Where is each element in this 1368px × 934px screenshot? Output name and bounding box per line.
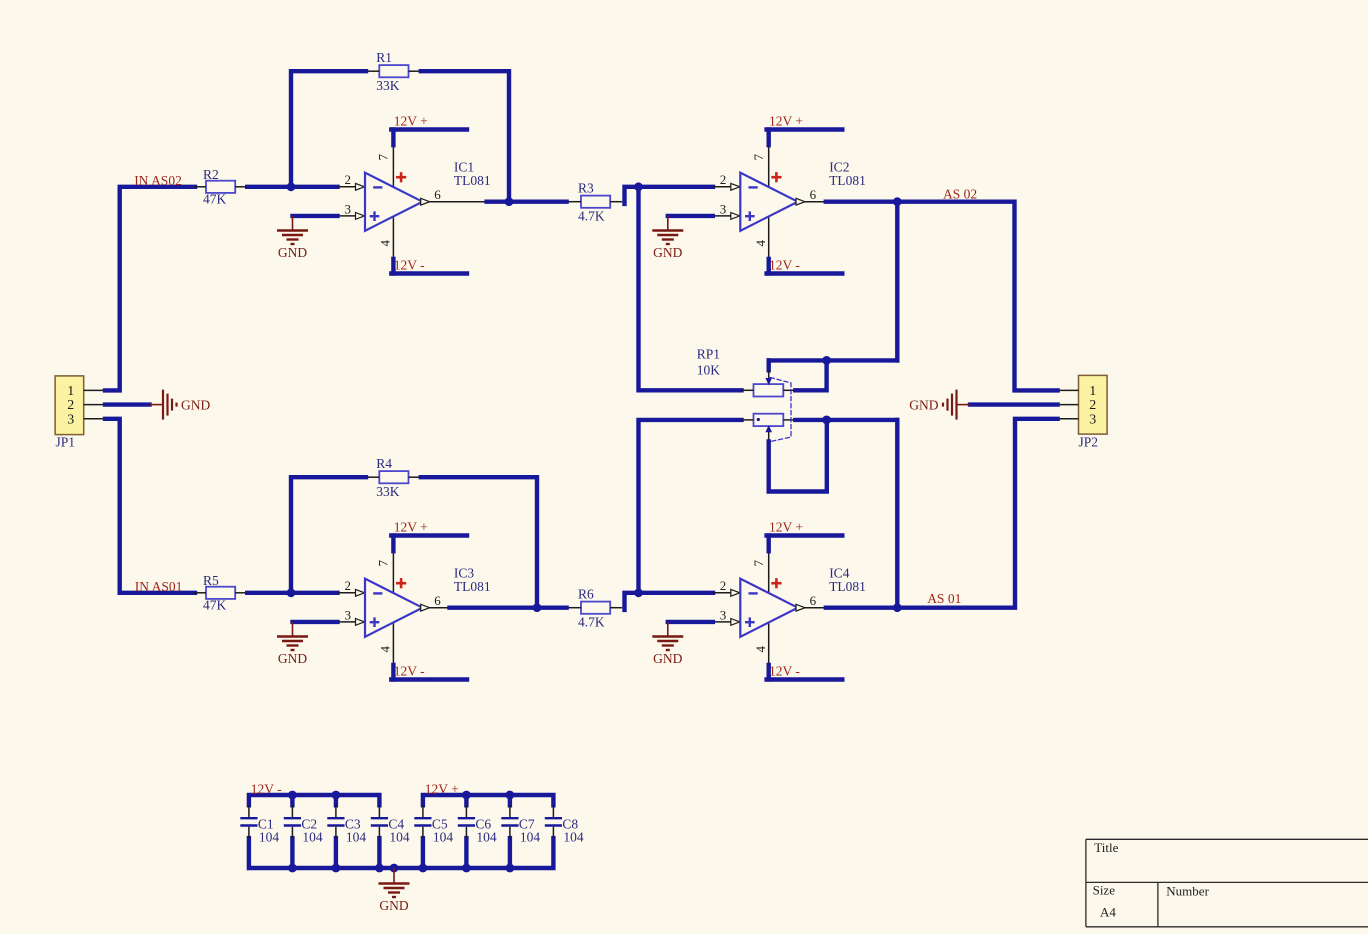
svg-text:3: 3 xyxy=(720,202,727,217)
svg-text:Size: Size xyxy=(1093,882,1116,897)
svg-text:104: 104 xyxy=(302,830,323,845)
svg-text:R4: R4 xyxy=(376,456,392,471)
svg-text:2: 2 xyxy=(67,398,74,413)
svg-text:3: 3 xyxy=(1089,412,1096,427)
svg-text:4: 4 xyxy=(378,646,393,653)
svg-text:7: 7 xyxy=(376,559,391,566)
svg-text:R2: R2 xyxy=(203,167,219,182)
svg-text:TL081: TL081 xyxy=(454,173,491,188)
svg-text:2: 2 xyxy=(1089,398,1096,413)
svg-text:4: 4 xyxy=(378,240,393,247)
svg-text:1: 1 xyxy=(1089,384,1096,399)
svg-text:104: 104 xyxy=(346,830,367,845)
svg-text:12V +: 12V + xyxy=(394,114,428,129)
svg-text:2: 2 xyxy=(345,172,352,187)
svg-text:2: 2 xyxy=(345,578,352,593)
svg-text:104: 104 xyxy=(389,830,410,845)
svg-text:R5: R5 xyxy=(203,573,219,588)
svg-text:12V -: 12V - xyxy=(251,782,282,797)
svg-text:3: 3 xyxy=(720,608,727,623)
svg-text:47K: 47K xyxy=(203,597,227,612)
svg-text:33K: 33K xyxy=(376,78,400,93)
svg-text:GND: GND xyxy=(379,898,408,913)
svg-text:6: 6 xyxy=(810,187,817,202)
svg-text:12V +: 12V + xyxy=(769,114,803,129)
svg-text:12V -: 12V - xyxy=(769,258,800,273)
svg-text:IN AS02: IN AS02 xyxy=(134,173,182,188)
svg-text:A4: A4 xyxy=(1100,904,1116,919)
svg-text:GND: GND xyxy=(181,397,210,412)
svg-text:12V -: 12V - xyxy=(394,664,425,679)
svg-text:JP2: JP2 xyxy=(1079,434,1099,449)
svg-text:12V -: 12V - xyxy=(394,258,425,273)
svg-text:10K: 10K xyxy=(697,363,721,378)
svg-text:GND: GND xyxy=(909,397,938,412)
svg-text:104: 104 xyxy=(259,830,280,845)
svg-text:Title: Title xyxy=(1094,840,1118,855)
svg-text:TL081: TL081 xyxy=(829,579,866,594)
svg-text:3: 3 xyxy=(67,412,74,427)
svg-text:3: 3 xyxy=(345,202,352,217)
svg-text:7: 7 xyxy=(751,559,766,566)
svg-text:33K: 33K xyxy=(376,484,400,499)
svg-text:6: 6 xyxy=(434,593,441,608)
svg-text:6: 6 xyxy=(810,593,817,608)
svg-text:RP1: RP1 xyxy=(697,347,720,362)
svg-text:GND: GND xyxy=(653,651,682,666)
svg-text:47K: 47K xyxy=(203,191,227,206)
svg-text:R3: R3 xyxy=(578,181,594,196)
svg-text:2: 2 xyxy=(720,578,727,593)
svg-text:AS 02: AS 02 xyxy=(943,186,977,201)
svg-text:7: 7 xyxy=(751,153,766,160)
svg-text:12V -: 12V - xyxy=(769,664,800,679)
svg-text:GND: GND xyxy=(278,245,307,260)
svg-text:4.7K: 4.7K xyxy=(578,209,605,224)
svg-text:12V +: 12V + xyxy=(425,782,459,797)
svg-text:TL081: TL081 xyxy=(829,173,866,188)
svg-text:7: 7 xyxy=(376,153,391,160)
svg-text:104: 104 xyxy=(520,830,541,845)
svg-text:R1: R1 xyxy=(376,50,392,65)
svg-text:4.7K: 4.7K xyxy=(578,615,605,630)
svg-text:12V +: 12V + xyxy=(394,520,428,535)
svg-text:104: 104 xyxy=(563,830,584,845)
svg-text:6: 6 xyxy=(434,187,441,202)
svg-text:TL081: TL081 xyxy=(454,579,491,594)
svg-text:JP1: JP1 xyxy=(56,434,76,449)
svg-text:3: 3 xyxy=(345,608,352,623)
svg-text:GND: GND xyxy=(653,245,682,260)
svg-text:IN AS01: IN AS01 xyxy=(135,579,183,594)
svg-text:AS 01: AS 01 xyxy=(927,591,961,606)
svg-text:Number: Number xyxy=(1166,883,1209,898)
svg-text:12V +: 12V + xyxy=(769,520,803,535)
svg-text:4: 4 xyxy=(753,646,768,653)
svg-text:R6: R6 xyxy=(578,587,594,602)
svg-text:4: 4 xyxy=(753,240,768,247)
svg-text:2: 2 xyxy=(720,172,727,187)
svg-text:104: 104 xyxy=(433,830,454,845)
svg-text:104: 104 xyxy=(476,830,497,845)
svg-text:GND: GND xyxy=(278,651,307,666)
svg-text:1: 1 xyxy=(67,384,74,399)
